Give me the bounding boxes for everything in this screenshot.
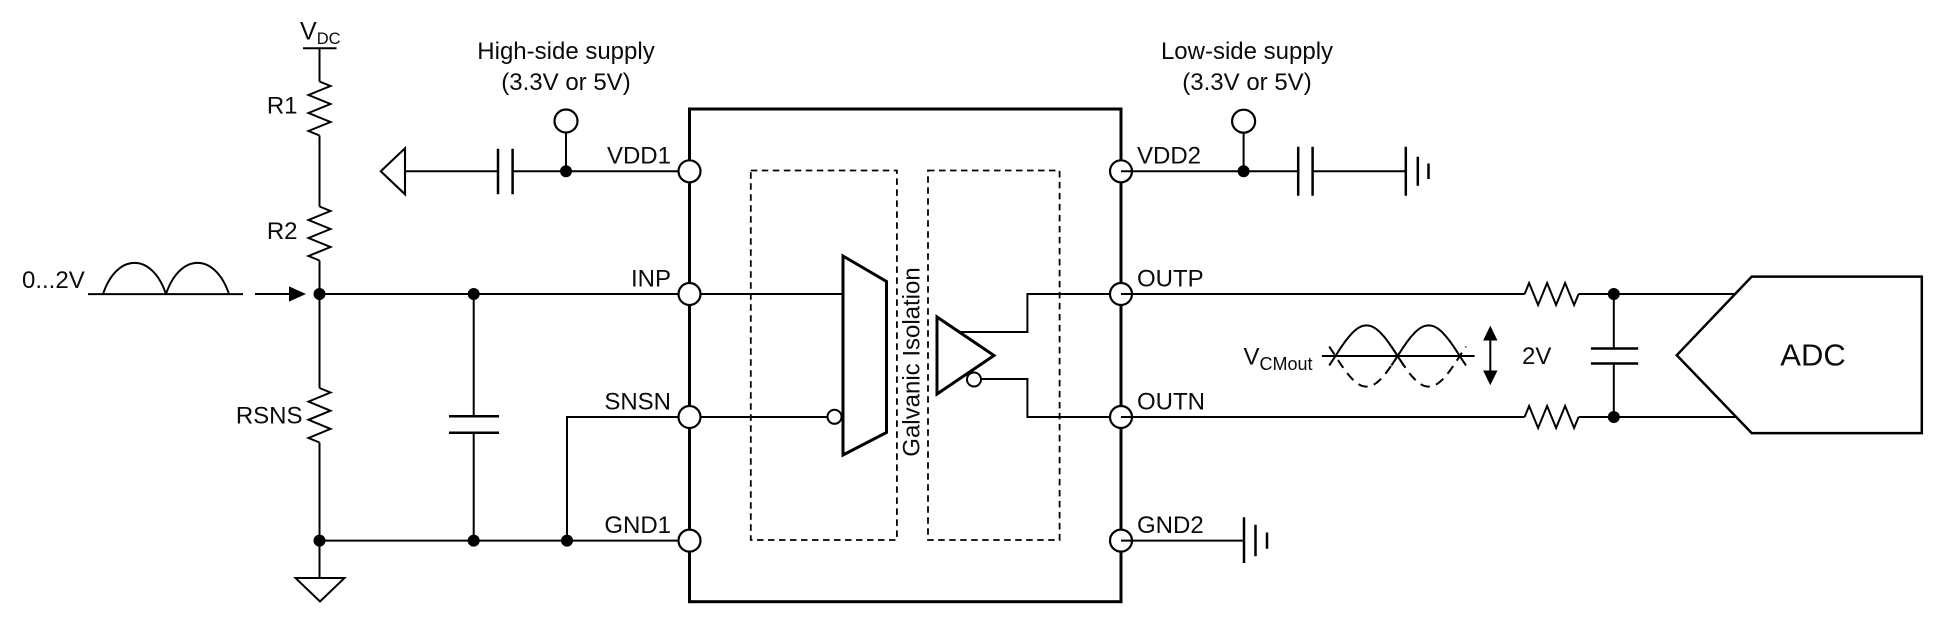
resistor RSNS	[309, 388, 331, 443]
buffer triangle	[937, 317, 994, 394]
wire ground lead	[319, 541, 321, 578]
svg-text:(3.3V or 5V): (3.3V or 5V)	[501, 69, 630, 96]
wire cap to VDD1 pin	[513, 170, 690, 172]
node dot cap top	[468, 288, 480, 300]
svg-text:RSNS: RSNS	[236, 403, 303, 430]
capacitor low-side bypass	[1298, 147, 1312, 196]
wire buffer lower output	[981, 379, 1121, 417]
input arrow wire	[255, 293, 290, 295]
pin SNSN	[679, 406, 701, 428]
wire supply circle to VDD1 wire	[565, 133, 567, 172]
VCMout waveform axis	[1322, 355, 1475, 357]
node dot gnd/rsns	[314, 535, 326, 547]
buffer output bubble	[967, 373, 981, 387]
svg-text:INP: INP	[631, 266, 671, 293]
pin INP	[679, 283, 701, 305]
resistor OUTP filter	[1525, 283, 1579, 305]
ADC block	[1677, 277, 1922, 434]
wire node A to RSNS	[319, 294, 321, 388]
svg-text:SNSN: SNSN	[604, 389, 671, 416]
wire OUTN to ADC	[1579, 416, 1740, 418]
wire VDC to R1	[319, 48, 321, 81]
wire RSNS to ground bus	[319, 443, 321, 541]
capacitor C-filter top lead	[473, 294, 475, 416]
node dot gnd/cap	[468, 535, 480, 547]
node dot gnd/snsn	[561, 535, 573, 547]
capacitor C-filter bottom lead	[473, 433, 475, 541]
svg-text:0...2V: 0...2V	[22, 267, 85, 294]
svg-text:R1: R1	[267, 93, 298, 120]
wire SNSN return vertical	[567, 417, 690, 541]
wire supply circle to VDD2 rail	[1243, 133, 1245, 172]
input waveform hump 1	[103, 263, 166, 294]
wire cap to ground	[1313, 170, 1406, 172]
pin GND2	[1110, 530, 1132, 552]
svg-text:(3.3V or 5V): (3.3V or 5V)	[1182, 69, 1311, 96]
node dot high-side supply	[560, 165, 572, 177]
VCMout waveform solid hump 1	[1329, 325, 1404, 365]
wire INP to modulator	[690, 293, 843, 295]
capacitor C-filter plates	[449, 416, 499, 433]
VCMout waveform dashed hump 2	[1391, 347, 1466, 387]
ground symbol GND2 (sideways)	[1244, 517, 1267, 563]
pin OUTN	[1110, 406, 1132, 428]
VCMout waveform dashed hump 1	[1329, 347, 1404, 387]
node dot low-side supply	[1238, 165, 1250, 177]
low-side supply terminal circle	[1232, 110, 1255, 133]
svg-text:ADC: ADC	[1780, 338, 1845, 373]
wire SNSN to modulator bubble	[690, 416, 828, 418]
wire node A to INP pin	[320, 293, 691, 295]
pin GND1	[679, 530, 701, 552]
capacitor high-side bypass	[498, 149, 513, 195]
node dot input/divider	[314, 288, 326, 300]
wire R1 to R2	[319, 136, 321, 207]
ground bus wire	[320, 540, 691, 542]
pin OUTP	[1110, 283, 1132, 305]
node dot OUTN/cap	[1608, 411, 1620, 423]
wire OUTP	[1121, 293, 1525, 295]
svg-text:VDD2: VDD2	[1137, 143, 1201, 170]
node dot OUTP/cap	[1608, 288, 1620, 300]
svg-text:OUTN: OUTN	[1137, 389, 1205, 416]
wire buffer upper output	[958, 294, 1121, 332]
resistor OUTN filter	[1525, 406, 1579, 428]
ground symbol low-side supply (sideways)	[1406, 147, 1429, 196]
capacitor diff filter bottom lead	[1613, 364, 1615, 418]
wire OUTN	[1121, 416, 1525, 418]
floating shield arrow (open triangle)	[381, 148, 405, 194]
high-side supply terminal circle	[555, 110, 578, 133]
svg-text:R2: R2	[267, 218, 298, 245]
op-amp U1 package outline	[690, 109, 1122, 602]
wire VDD2 rail	[1121, 170, 1298, 172]
wire GND2 to ground	[1121, 540, 1244, 542]
capacitor diff filter plates	[1591, 349, 1638, 364]
modulator input bubble	[828, 410, 842, 424]
node VDC supply bar	[303, 47, 337, 49]
capacitor diff filter top lead	[1613, 294, 1615, 349]
resistor R1	[309, 82, 331, 136]
2V swing double arrow	[1489, 338, 1491, 372]
resistor R2	[309, 207, 331, 261]
dashed box high-side die	[751, 171, 897, 541]
svg-text:OUTP: OUTP	[1137, 266, 1204, 293]
pin VDD1	[679, 160, 701, 182]
svg-text:Galvanic Isolation: Galvanic Isolation	[899, 267, 926, 456]
pin VDD2	[1110, 160, 1132, 182]
input waveform axis	[88, 293, 243, 295]
svg-text:GND1: GND1	[604, 512, 671, 539]
svg-text:2V: 2V	[1522, 343, 1551, 370]
VCMout waveform solid hump 2	[1391, 325, 1466, 365]
svg-text:VDD1: VDD1	[607, 143, 671, 170]
dashed box low-side die	[928, 171, 1060, 541]
input waveform hump 2	[166, 263, 229, 294]
wire OUTP to ADC	[1579, 293, 1740, 295]
wire VDD1 rail	[405, 170, 498, 172]
input arrowhead	[289, 286, 306, 301]
svg-text:High-side supply: High-side supply	[477, 38, 654, 65]
wire R2 to node A	[319, 261, 321, 295]
modulator trapezoid	[843, 256, 887, 455]
svg-text:Low-side supply: Low-side supply	[1161, 38, 1333, 65]
svg-text:GND2: GND2	[1137, 512, 1204, 539]
ground symbol (triangle)	[296, 578, 345, 602]
